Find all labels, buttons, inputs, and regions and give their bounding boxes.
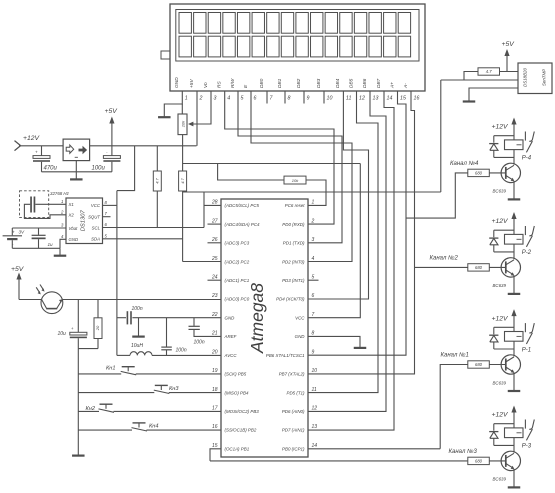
svg-text:X2: X2 [68,213,75,218]
svg-text:3: 3 [312,237,315,243]
svg-text:Канал №3: Канал №3 [449,448,478,455]
svg-text:4: 4 [312,256,315,262]
svg-text:(MOSI/OC2) PB3: (MOSI/OC2) PB3 [225,409,260,414]
svg-text:24: 24 [211,274,218,280]
svg-text:(MISO) PB4: (MISO) PB4 [225,390,249,395]
svg-text:P-4: P-4 [522,156,532,162]
svg-text:32768 Hz: 32768 Hz [50,191,70,196]
svg-text:DB7: DB7 [376,78,382,88]
svg-text:PD7 (AIN1): PD7 (AIN1) [282,428,305,433]
svg-text:17: 17 [212,406,218,412]
svg-text:13: 13 [312,424,318,430]
svg-text:AVCC: AVCC [224,353,238,358]
svg-text:19: 19 [212,368,218,374]
svg-text:470u: 470u [44,166,58,172]
svg-text:DB2: DB2 [296,78,302,88]
svg-text:10k: 10k [292,178,299,183]
svg-text:VCC: VCC [91,203,101,208]
svg-text:20: 20 [211,349,218,355]
svg-text:100n: 100n [176,347,187,353]
svg-text:A-: A- [403,83,409,89]
svg-text:PD1 (TXD): PD1 (TXD) [283,241,305,246]
svg-text:Atmega8: Atmega8 [247,283,267,354]
svg-text:VCC: VCC [295,315,305,320]
svg-text:SCL: SCL [92,225,101,230]
svg-text:Vbat: Vbat [69,226,79,231]
svg-text:GND: GND [69,237,79,242]
svg-text:DB0: DB0 [259,78,265,88]
svg-text:GND: GND [225,315,236,320]
svg-text:18: 18 [212,387,218,393]
svg-text:SDA: SDA [91,237,100,242]
svg-text:PC6 reset: PC6 reset [285,203,305,208]
svg-text:1u: 1u [48,242,54,247]
svg-text:5: 5 [241,96,244,102]
svg-text:DB1: DB1 [277,78,283,88]
svg-text:P-2: P-2 [522,250,532,256]
svg-text:+: + [35,149,38,154]
svg-text:12: 12 [312,406,318,412]
svg-text:3V: 3V [19,229,26,234]
svg-text:13: 13 [373,96,379,102]
svg-text:BC639: BC639 [493,477,507,482]
svg-text:PB0 (ICP1): PB0 (ICP1) [282,446,305,451]
svg-text:GND: GND [295,334,306,339]
svg-text:4: 4 [227,96,230,102]
svg-text:22: 22 [211,312,218,318]
svg-text:100u: 100u [92,166,106,172]
svg-text:(ADC4/SDA) PC4: (ADC4/SDA) PC4 [225,222,261,227]
svg-text:16: 16 [212,424,218,430]
svg-text:(SS/OC1B) PB2: (SS/OC1B) PB2 [225,428,257,433]
svg-text:10: 10 [312,368,318,374]
svg-text:4.7: 4.7 [180,177,185,183]
svg-text:12: 12 [359,96,365,102]
svg-text:11: 11 [312,387,317,393]
svg-text:11: 11 [346,96,352,102]
svg-text:20: 20 [95,325,100,331]
svg-text:+: + [12,230,15,235]
svg-text:(ADC2) PC2: (ADC2) PC2 [225,259,250,264]
svg-text:7: 7 [312,312,315,318]
svg-text:Кн4: Кн4 [149,424,159,430]
svg-text:BC639: BC639 [493,189,507,194]
svg-text:+12V: +12V [492,124,510,131]
svg-text:Канал №4: Канал №4 [450,160,479,167]
svg-text:Vo: Vo [203,82,209,88]
svg-text:10u: 10u [58,331,67,337]
svg-text:14: 14 [312,443,318,449]
svg-text:PD6 (AIN0): PD6 (AIN0) [282,409,305,414]
svg-text:28: 28 [211,200,218,206]
svg-text:9: 9 [307,96,310,102]
svg-text:680: 680 [475,362,483,367]
svg-text:+12V: +12V [492,315,510,322]
svg-text:PD4 (XCK/T0): PD4 (XCK/T0) [276,297,305,302]
svg-text:680: 680 [475,265,483,270]
svg-text:23: 23 [211,293,218,299]
svg-text:2: 2 [199,96,203,102]
svg-text:DB4: DB4 [335,78,341,88]
svg-text:DS1307: DS1307 [81,210,87,232]
svg-text:25: 25 [211,256,218,262]
svg-text:14: 14 [387,96,393,102]
svg-text:26: 26 [211,237,218,243]
svg-text:PB7 (XTAL2): PB7 (XTAL2) [279,372,305,377]
svg-text:1: 1 [185,96,188,102]
svg-text:P-3: P-3 [522,444,532,450]
svg-text:8: 8 [312,331,315,337]
svg-text:Кн2: Кн2 [86,406,96,412]
svg-text:DB5: DB5 [348,78,354,88]
svg-text:(ADC1) PC1: (ADC1) PC1 [225,278,250,283]
svg-text:8: 8 [288,96,291,102]
svg-text:RS: RS [217,81,223,88]
svg-text:27: 27 [211,218,218,224]
svg-text:3: 3 [214,96,217,102]
svg-text:+5V: +5V [105,108,119,115]
svg-text:100n: 100n [132,306,143,312]
svg-text:PD3 (INT1): PD3 (INT1) [282,278,305,283]
svg-text:GND: GND [174,77,180,88]
svg-text:15: 15 [212,443,218,449]
svg-text:BC639: BC639 [493,380,507,385]
svg-text:DB6: DB6 [362,78,368,88]
svg-text:R/W: R/W [230,78,236,88]
svg-text:10: 10 [327,96,333,102]
svg-text:680: 680 [475,459,483,464]
svg-text:PD0 (RXD): PD0 (RXD) [282,222,305,227]
svg-text:5: 5 [312,274,315,280]
svg-text:A+: A+ [389,82,395,89]
svg-text:DS18B20: DS18B20 [523,68,528,87]
svg-text:Канал №2: Канал №2 [430,255,459,262]
svg-text:Канал №1: Канал №1 [441,352,469,359]
svg-text:Кн1: Кн1 [106,366,116,372]
svg-text:100n: 100n [194,340,205,346]
svg-text:6: 6 [254,96,257,102]
svg-text:10uH: 10uH [131,343,143,349]
svg-text:680: 680 [475,171,483,176]
svg-text:10k: 10k [181,120,186,127]
svg-text:15: 15 [400,96,406,102]
svg-text:AREF: AREF [224,334,237,339]
svg-text:+12V: +12V [492,412,510,419]
svg-text:(OC1A) PB1: (OC1A) PB1 [225,446,250,451]
svg-text:(SCK) PB5: (SCK) PB5 [225,372,247,377]
svg-text:(ADC5/SCL) PC5: (ADC5/SCL) PC5 [225,203,260,208]
svg-text:PB6 XTAL1/TCSC1: PB6 XTAL1/TCSC1 [266,353,305,358]
svg-text:2: 2 [311,218,315,224]
svg-text:4.7: 4.7 [486,69,492,74]
svg-text:+12V: +12V [492,218,510,225]
svg-text:9: 9 [312,349,315,355]
svg-text:+5V: +5V [11,266,25,273]
svg-text:+5V: +5V [502,41,516,48]
svg-text:SenTMP: SenTMP [541,69,546,86]
svg-text:(ADC3) PC3: (ADC3) PC3 [225,241,250,246]
svg-text:DB3: DB3 [316,78,322,88]
svg-text:6: 6 [312,293,315,299]
svg-text:16: 16 [414,96,420,102]
svg-text:+5V: +5V [189,79,195,88]
svg-text:PD2 (INT0): PD2 (INT0) [282,259,305,264]
svg-text:+12V: +12V [23,135,41,142]
svg-text:SQUT: SQUT [88,215,100,220]
svg-text:X1: X1 [68,202,75,207]
svg-text:Кн3: Кн3 [169,386,179,392]
svg-text:1: 1 [312,200,315,206]
svg-text:BC639: BC639 [493,283,507,288]
svg-text:(ADC0) PC0: (ADC0) PC0 [225,297,250,302]
svg-text:21: 21 [211,331,218,337]
svg-text:P-1: P-1 [522,347,531,353]
svg-text:PD5 (T1): PD5 (T1) [287,390,306,395]
svg-text:4.7: 4.7 [155,177,160,183]
